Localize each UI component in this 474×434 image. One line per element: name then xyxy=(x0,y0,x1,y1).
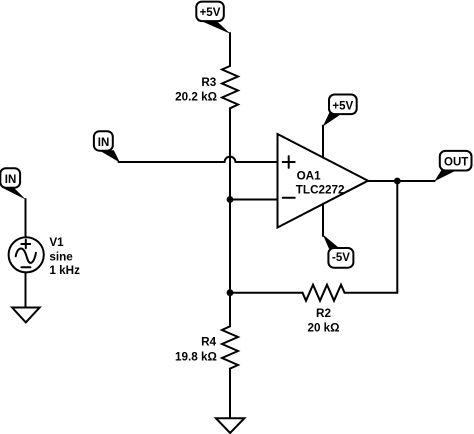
voltage source V1 circle xyxy=(9,237,44,272)
+5V supply flag (op-amp V+) xyxy=(323,95,357,127)
svg-text:V1: V1 xyxy=(49,236,64,249)
svg-text:20.2 kΩ: 20.2 kΩ xyxy=(175,90,217,103)
svg-text:+5V: +5V xyxy=(332,100,353,112)
wire hop to op-amp + input xyxy=(235,161,277,163)
OUT flag xyxy=(434,151,471,182)
V1 plus terminal mark xyxy=(21,240,30,249)
op-amp OA1 triangle xyxy=(278,134,369,228)
svg-text:R3: R3 xyxy=(201,76,216,89)
wire node to op-amp - input xyxy=(230,199,278,201)
resistor R4 xyxy=(222,326,238,368)
IN flag (drives op-amp non-inverting input) xyxy=(94,131,120,162)
ground symbol (R4) xyxy=(216,418,245,433)
svg-text:OUT: OUT xyxy=(444,156,468,168)
V1 minus terminal mark xyxy=(21,266,30,268)
svg-text:20 kΩ: 20 kΩ xyxy=(307,322,339,335)
wire R4 to ground xyxy=(229,369,231,419)
wire IN flag to V1 xyxy=(25,199,27,236)
wire op-amp V+ pin xyxy=(322,126,324,158)
output wire from op-amp xyxy=(368,180,435,182)
wire IN to hop (left segment) xyxy=(119,161,225,163)
wire feedback node to R4 xyxy=(229,293,231,327)
-5V supply flag (op-amp V-) xyxy=(323,234,354,267)
svg-text:R4: R4 xyxy=(201,336,216,349)
resistor R2 xyxy=(303,285,345,301)
wire inverting node down to feedback node xyxy=(229,200,231,293)
svg-text:IN: IN xyxy=(98,137,110,149)
IN flag (source side, top-left) xyxy=(0,168,26,199)
svg-text:IN: IN xyxy=(5,174,17,186)
resistor R3 xyxy=(222,66,238,108)
ground symbol (V1) xyxy=(12,308,39,323)
svg-text:R2: R2 xyxy=(316,307,331,320)
feedback junction node xyxy=(227,289,234,296)
+5V supply flag (top, feeds R3) xyxy=(196,2,230,34)
op-amp - input symbol xyxy=(283,197,295,199)
wire op-amp V- pin xyxy=(322,204,324,236)
wire V1 to ground xyxy=(25,273,27,308)
junction node at inverting input xyxy=(227,196,234,203)
wire hop over vertical net xyxy=(225,157,236,162)
wire +5V flag to R3 xyxy=(229,33,231,66)
wire R3 to inverting node (passes under hop) xyxy=(229,108,231,199)
feedback wire down from output xyxy=(396,181,398,293)
svg-text:TLC2272: TLC2272 xyxy=(296,183,345,196)
feedback wire to R2 right end xyxy=(345,292,398,294)
svg-text:-5V: -5V xyxy=(332,252,350,264)
wire R2 left end to feedback node xyxy=(230,292,303,294)
V1 sine waveform symbol xyxy=(16,248,36,262)
output junction dot xyxy=(394,178,401,185)
svg-text:19.8 kΩ: 19.8 kΩ xyxy=(175,350,217,363)
svg-text:+5V: +5V xyxy=(200,7,221,19)
op-amp + input symbol xyxy=(283,156,295,168)
svg-text:1 kHz: 1 kHz xyxy=(49,264,80,277)
svg-text:sine: sine xyxy=(49,250,73,263)
svg-text:OA1: OA1 xyxy=(297,169,322,182)
